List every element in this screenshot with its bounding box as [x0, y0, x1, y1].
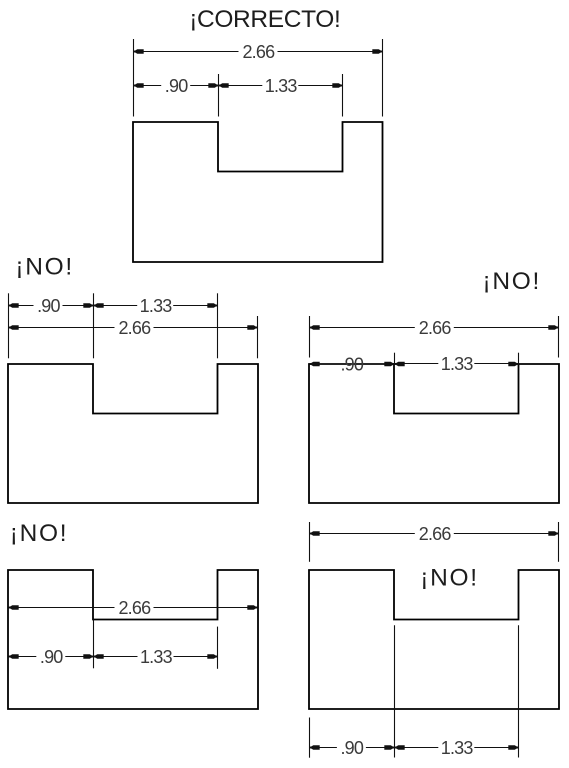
extension lines fig3 notch walls above part — [394, 353, 396, 365]
extension lines fig5 above for 2.66 — [309, 522, 311, 562]
svg-text:.90: .90 — [40, 647, 63, 667]
dimension 1.33 fig3 over notch — [395, 363, 439, 365]
svg-text:2.66: 2.66 — [118, 318, 151, 338]
svg-text:2.66: 2.66 — [118, 598, 151, 618]
svg-text:1.33: 1.33 — [140, 296, 173, 316]
part outline fig3 (U-block) — [309, 364, 559, 503]
dimension .90 fig1 — [134, 85, 162, 87]
dimension .90 fig3 on object edge (strikethrough) — [310, 363, 395, 365]
extension lines fig1 notch — [218, 74, 220, 117]
dimension 2.66 fig2 — [9, 327, 115, 329]
extension lines fig3 outer — [309, 316, 311, 358]
svg-text:.90: .90 — [165, 76, 188, 96]
part outline fig2 (U-block) — [8, 364, 258, 503]
dimension 1.33 fig2 — [94, 305, 138, 307]
extension lines fig2 — [8, 293, 10, 358]
dimension .90 fig5 below part — [310, 747, 337, 749]
dimension 2.66 fig3 — [310, 327, 415, 329]
extension lines fig5 notch walls through part — [394, 625, 396, 757]
dimension 2.66 fig1 — [134, 51, 239, 53]
part outline fig1 (U-block) — [133, 122, 383, 262]
svg-text:1.33: 1.33 — [140, 647, 173, 667]
extension lines fig1 outer — [133, 39, 135, 117]
extension line fig4 right notch wall extension — [217, 627, 219, 669]
svg-text:.90: .90 — [340, 738, 363, 758]
dimension 1.33 fig4 inside part — [94, 656, 138, 658]
svg-text:1.33: 1.33 — [265, 76, 298, 96]
part outline fig4 (U-block) — [8, 570, 258, 709]
extension line fig4 left notch wall extended — [93, 620, 95, 669]
svg-text:.90: .90 — [37, 296, 60, 316]
dimension 2.66 fig5 above part — [310, 533, 415, 535]
part outline fig5 (U-block) — [309, 570, 559, 709]
svg-text:¡CORRECTO!: ¡CORRECTO! — [189, 6, 340, 33]
dimension .90 fig2 — [9, 305, 34, 307]
svg-text:2.66: 2.66 — [419, 318, 452, 338]
svg-text:¡NO!: ¡NO! — [15, 254, 74, 281]
svg-text:¡NO!: ¡NO! — [10, 520, 69, 547]
dimension 2.66 fig4 inside part — [9, 607, 115, 609]
dimension .90 fig4 inside part — [9, 656, 37, 658]
dimension 1.33 fig1 — [219, 85, 263, 87]
svg-text:1.33: 1.33 — [441, 354, 474, 374]
svg-text:¡NO!: ¡NO! — [420, 565, 479, 592]
dimension 1.33 fig5 below part — [395, 747, 439, 749]
extension line fig5 left edge below part — [309, 718, 311, 758]
svg-text:1.33: 1.33 — [441, 738, 474, 758]
svg-text:¡NO!: ¡NO! — [482, 268, 541, 295]
svg-text:2.66: 2.66 — [419, 524, 452, 544]
svg-text:2.66: 2.66 — [242, 42, 275, 62]
svg-text:.90: .90 — [340, 355, 363, 375]
